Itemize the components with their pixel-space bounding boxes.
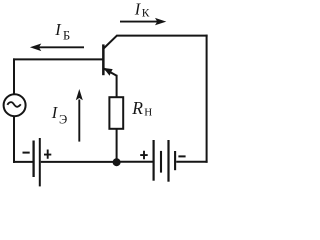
sine wave of source bbox=[7, 102, 20, 107]
label IB bbox=[54, 20, 70, 43]
label IE bbox=[51, 103, 67, 126]
svg-text:I: I bbox=[54, 20, 62, 39]
transistor VT1 emitter arrowhead bbox=[103, 68, 112, 76]
resistor RH body bbox=[109, 97, 123, 129]
svg-text:R: R bbox=[131, 98, 143, 118]
arrow IK shaft bbox=[120, 21, 158, 23]
battery GB2 plate long 1 bbox=[153, 140, 155, 181]
AC source G1 bbox=[4, 94, 26, 116]
transistor VT1 collector lead bbox=[104, 35, 118, 48]
wire bottom-left to battery bbox=[13, 161, 33, 163]
wire battery GB1 to node bbox=[41, 161, 114, 163]
svg-text:Э: Э bbox=[59, 112, 67, 126]
label IK bbox=[134, 0, 150, 20]
wire base (top-left horizontal) bbox=[13, 58, 103, 60]
label minus of GB2 bbox=[178, 155, 185, 157]
label minus of GB1 bbox=[23, 152, 30, 154]
wire battery GB2 to right corner bbox=[176, 161, 207, 163]
node junction dot bbox=[113, 158, 121, 166]
battery GB2 plate long 2 bbox=[167, 140, 169, 182]
svg-text:I: I bbox=[51, 103, 59, 122]
label RH bbox=[131, 98, 152, 119]
transistor VT1 emitter lead bbox=[103, 68, 116, 76]
svg-text:Н: Н bbox=[144, 107, 152, 119]
arrow IE head bbox=[76, 89, 83, 100]
svg-text:Б: Б bbox=[63, 28, 70, 42]
battery GB1 plus plate bbox=[39, 138, 41, 186]
wire node to battery GB2 bbox=[119, 161, 153, 163]
wire left vertical lower bbox=[13, 116, 15, 163]
wire emitter vertical to resistor bbox=[116, 75, 118, 98]
wire resistor to node bbox=[116, 129, 118, 162]
label plus of GB1 bbox=[44, 150, 51, 159]
wire right vertical bbox=[206, 35, 208, 163]
wire top (collector rail) bbox=[117, 35, 208, 37]
battery GB1 minus plate bbox=[32, 141, 34, 178]
label plus of GB2 bbox=[140, 151, 148, 160]
battery GB2 plate short 1 bbox=[160, 151, 162, 173]
svg-text:К: К bbox=[142, 8, 150, 20]
wire left vertical upper bbox=[13, 58, 15, 94]
arrow IK head bbox=[155, 18, 166, 25]
arrow IE shaft bbox=[78, 100, 80, 142]
transistor VT1 base bar bbox=[102, 44, 105, 75]
arrow IB shaft bbox=[39, 46, 84, 48]
svg-text:I: I bbox=[134, 0, 142, 18]
battery GB2 plate short 2 bbox=[174, 151, 176, 170]
arrow IB head bbox=[30, 44, 41, 52]
